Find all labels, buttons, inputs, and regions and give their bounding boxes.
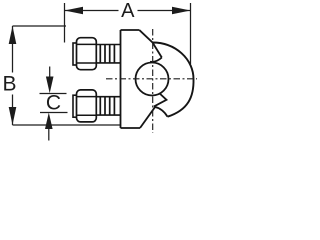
bottom bolt threaded shank xyxy=(96,97,120,115)
dimension A right arrowhead xyxy=(172,7,191,14)
dimension A line xyxy=(65,10,191,12)
clip body top edge xyxy=(121,29,140,31)
top bolt nut xyxy=(77,38,97,70)
dimension C bottom arrow (points up) xyxy=(48,128,50,141)
u-bolt outer bend arc xyxy=(153,43,194,117)
bottom beak xyxy=(154,94,167,107)
dimension C top extension line xyxy=(40,93,67,95)
dimension B top extension line xyxy=(13,25,67,27)
wire rope hole circle xyxy=(136,63,169,96)
dimension A left extension line xyxy=(64,3,66,43)
svg-text:C: C xyxy=(46,92,61,115)
dimension B bottom extension line xyxy=(13,124,121,126)
dimension B line xyxy=(12,26,14,125)
clip body top beak curl xyxy=(150,58,162,62)
svg-text:B: B xyxy=(2,73,16,96)
dimension B bottom arrowhead xyxy=(9,107,17,125)
dimension C bottom extension line xyxy=(40,112,68,114)
clip body left edge xyxy=(120,30,122,128)
dimension A right extension line xyxy=(190,3,192,64)
top bolt washer xyxy=(73,43,77,65)
clip body top slope xyxy=(140,30,162,57)
bottom bolt nut xyxy=(77,90,97,122)
vertical centerline (dashed) xyxy=(152,29,154,133)
top bolt threaded shank xyxy=(96,45,120,63)
horizontal centerline (dashed) xyxy=(106,78,197,80)
clip body bottom edge xyxy=(121,127,141,129)
dimension B top arrowhead xyxy=(9,26,17,44)
u-bolt inner curve bottom xyxy=(154,107,167,117)
bottom bolt washer xyxy=(73,95,77,117)
svg-text:A: A xyxy=(121,0,135,22)
dimension C top arrow (points down) xyxy=(49,67,51,79)
dimension A left arrowhead xyxy=(65,7,84,14)
clip body bottom chamfer xyxy=(140,107,155,128)
